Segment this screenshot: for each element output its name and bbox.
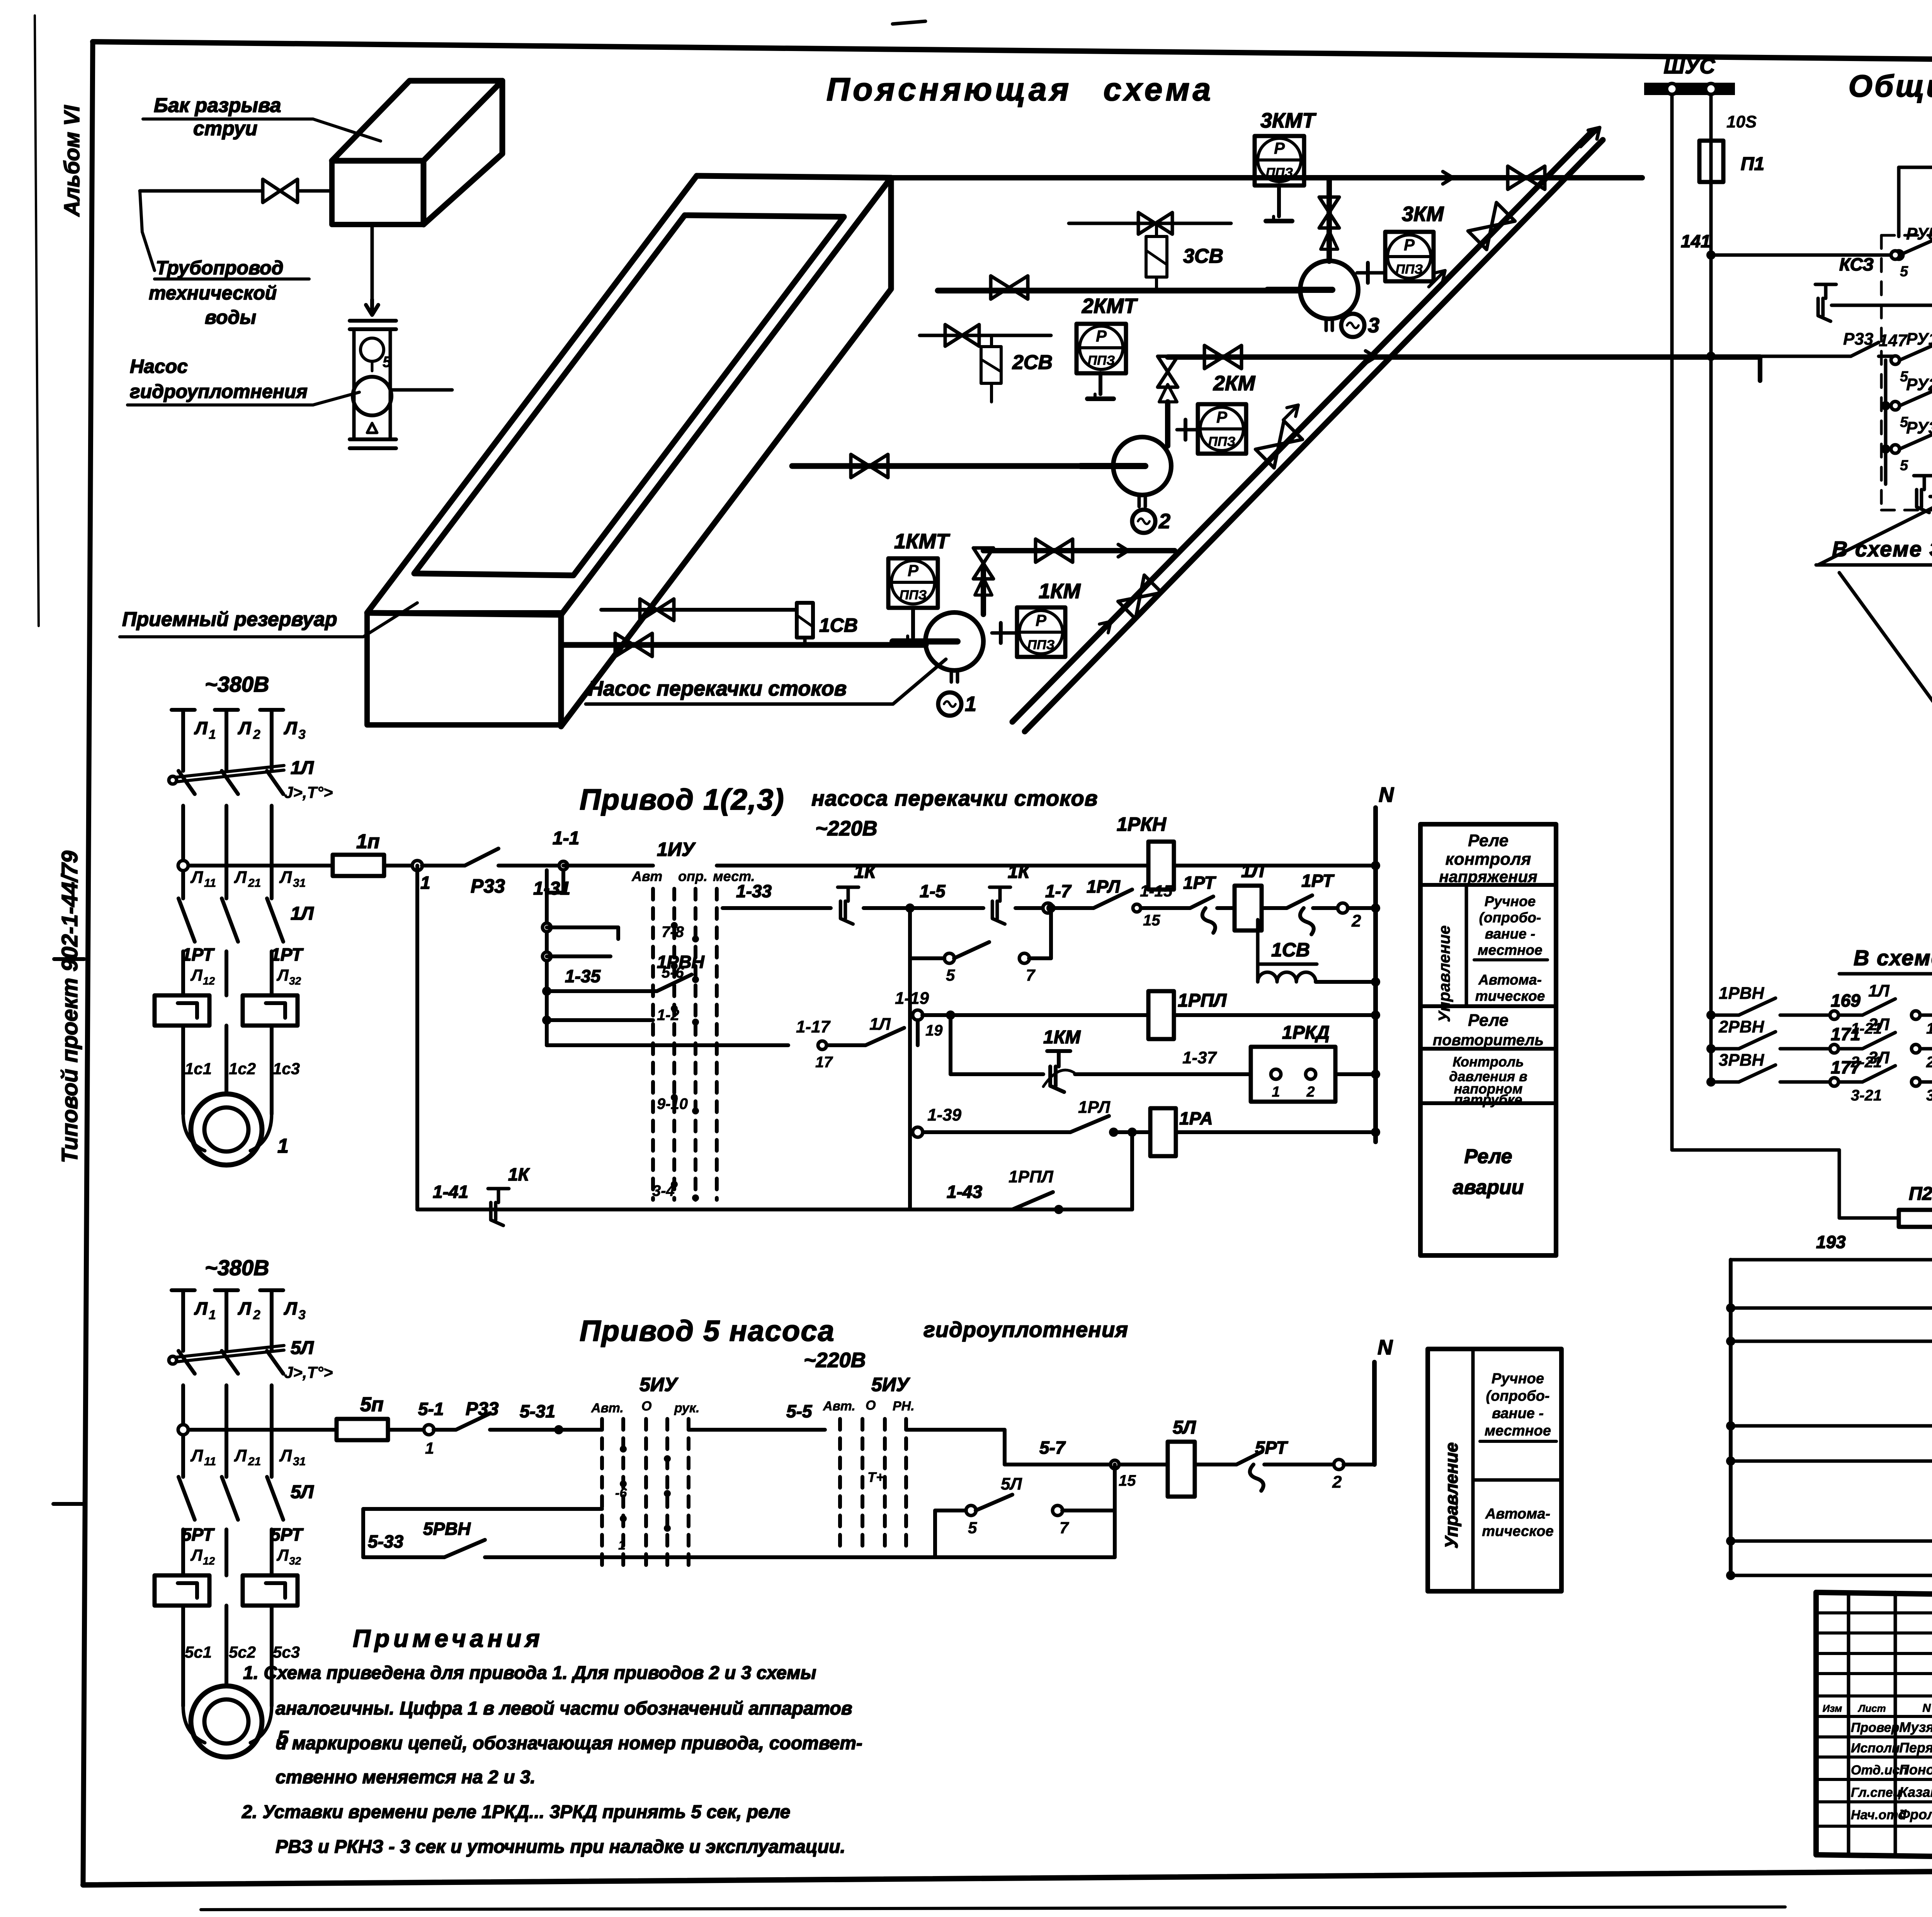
svg-text:Л: Л — [234, 868, 247, 887]
svg-text:местное: местное — [1485, 1423, 1551, 1439]
svg-text:1. Схема приведена для прив: 1. Схема приведена для привода 1. Для пр… — [243, 1663, 816, 1683]
svg-text:Ј>,Т°>: Ј>,Т°> — [284, 1363, 333, 1381]
svg-text:1Л: 1Л — [291, 903, 314, 924]
svg-text:РУ1: РУ1 — [1906, 330, 1932, 349]
svg-text:-6: -6 — [615, 1486, 627, 1500]
svg-text:12: 12 — [203, 1555, 215, 1567]
svg-text:1с3: 1с3 — [273, 1060, 300, 1078]
svg-text:N: N — [1379, 783, 1394, 806]
svg-text:Автома-: Автома- — [1485, 1506, 1550, 1522]
svg-text:~380В: ~380В — [205, 672, 269, 696]
svg-text:Р: Р — [1036, 611, 1047, 629]
svg-text:Фролов: Фролов — [1899, 1806, 1932, 1822]
svg-text:N докум.: N докум. — [1922, 1702, 1932, 1715]
svg-text:32: 32 — [289, 975, 301, 987]
svg-text:Авт.: Авт. — [823, 1399, 855, 1414]
svg-text:1РКД: 1РКД — [1282, 1022, 1330, 1043]
svg-text:Гл.спец: Гл.спец — [1851, 1785, 1901, 1800]
svg-text:~220В: ~220В — [815, 817, 878, 840]
svg-text:Пономарев: Пономарев — [1899, 1762, 1932, 1778]
svg-text:31: 31 — [293, 877, 306, 890]
svg-text:П2: П2 — [1909, 1184, 1932, 1204]
svg-text:Приемный резервуар: Приемный резервуар — [122, 608, 337, 631]
svg-text:1РА: 1РА — [1179, 1108, 1213, 1128]
svg-text:1-7: 1-7 — [1045, 881, 1072, 901]
svg-text:Типовой проект 902-1-44/79: Типовой проект 902-1-44/79 — [57, 851, 82, 1163]
svg-text:1: 1 — [1272, 1084, 1280, 1100]
svg-text:КСЗ: КСЗ — [1839, 254, 1874, 274]
svg-text:5РТ: 5РТ — [182, 1524, 215, 1544]
svg-text:2: 2 — [253, 1308, 260, 1322]
svg-text:19: 19 — [925, 1022, 943, 1039]
svg-text:1: 1 — [425, 1439, 434, 1457]
svg-text:В схеме ЭО лист 14: В схеме ЭО лист 14 — [1854, 946, 1932, 970]
svg-text:РУ5: РУ5 — [1906, 225, 1932, 243]
svg-text:1РВН: 1РВН — [1719, 984, 1765, 1003]
svg-text:патрубке: патрубке — [1454, 1092, 1522, 1107]
svg-text:Насос: Насос — [130, 356, 188, 377]
svg-text:1КМТ: 1КМТ — [894, 530, 950, 553]
svg-text:Авт.: Авт. — [591, 1401, 624, 1415]
svg-text:5РТ: 5РТ — [1255, 1437, 1289, 1458]
svg-text:193: 193 — [1816, 1232, 1846, 1252]
svg-text:О: О — [866, 1398, 876, 1413]
svg-text:РН.: РН. — [893, 1399, 915, 1414]
svg-text:1-19: 1-19 — [895, 989, 929, 1008]
svg-text:воды: воды — [205, 306, 256, 328]
svg-text:11: 11 — [204, 1455, 216, 1468]
svg-text:рук.: рук. — [674, 1401, 699, 1415]
svg-text:Провер: Провер — [1851, 1720, 1899, 1735]
svg-text:ственно меняется на 2 и 3.: ственно меняется на 2 и 3. — [276, 1767, 536, 1788]
svg-text:3РВН: 3РВН — [1719, 1051, 1765, 1070]
svg-text:1-43: 1-43 — [947, 1182, 982, 1202]
svg-text:2: 2 — [253, 727, 260, 742]
svg-text:5Л: 5Л — [1001, 1475, 1022, 1493]
svg-text:1-37: 1-37 — [1182, 1048, 1218, 1067]
svg-text:Л: Л — [279, 1446, 292, 1465]
svg-text:1РТ: 1РТ — [270, 944, 304, 964]
svg-text:Л: Л — [276, 1546, 289, 1564]
svg-text:аварии: аварии — [1453, 1176, 1524, 1199]
svg-text:1-41: 1-41 — [433, 1182, 468, 1202]
svg-text:5Л: 5Л — [291, 1482, 314, 1502]
svg-text:5: 5 — [946, 966, 955, 984]
svg-text:3: 3 — [1368, 314, 1379, 337]
svg-text:Насос перекачки стоков: Насос перекачки стоков — [588, 677, 847, 700]
svg-text:Л: Л — [190, 1546, 203, 1564]
svg-text:Исполн: Исполн — [1851, 1741, 1900, 1755]
svg-text:Л: Л — [194, 1298, 208, 1318]
svg-text:Трубопровод: Трубопровод — [156, 257, 284, 279]
svg-text:147: 147 — [1879, 331, 1908, 350]
svg-text:Казаков: Казаков — [1899, 1784, 1932, 1800]
svg-text:15: 15 — [1143, 912, 1160, 929]
svg-text:местное: местное — [1478, 942, 1542, 958]
svg-text:аналогичны. Цифра 1 в левой: аналогичны. Цифра 1 в левой части обозна… — [276, 1698, 852, 1719]
svg-text:Л: Л — [284, 718, 298, 738]
svg-text:2КМТ: 2КМТ — [1082, 294, 1138, 318]
svg-text:О: О — [641, 1399, 651, 1414]
svg-text:3КМ: 3КМ — [1402, 202, 1444, 226]
svg-text:Т+: Т+ — [867, 1469, 884, 1485]
svg-text:1: 1 — [420, 873, 430, 893]
svg-text:1РЛ: 1РЛ — [1087, 876, 1121, 896]
svg-text:ППЗ: ППЗ — [1208, 434, 1236, 449]
svg-text:опр.: опр. — [678, 868, 707, 884]
svg-text:2: 2 — [1351, 912, 1361, 930]
svg-text:17: 17 — [815, 1054, 833, 1071]
svg-text:Л: Л — [284, 1298, 298, 1318]
svg-text:1: 1 — [277, 1135, 289, 1157]
svg-text:3КМТ: 3КМТ — [1260, 109, 1316, 132]
svg-text:Альбом VI: Альбом VI — [60, 105, 84, 217]
svg-text:5с1: 5с1 — [185, 1643, 212, 1661]
svg-text:1РТ: 1РТ — [1301, 871, 1335, 891]
svg-text:5с3: 5с3 — [273, 1643, 300, 1661]
svg-text:177: 177 — [1831, 1057, 1861, 1077]
svg-text:Реле: Реле — [1464, 1145, 1512, 1168]
svg-text:П1: П1 — [1741, 154, 1764, 174]
svg-text:Поясняющая схема: Поясняющая схема — [827, 71, 1214, 107]
svg-text:Перян: Перян — [1899, 1740, 1932, 1755]
svg-text:Л: Л — [279, 868, 292, 887]
svg-text:Примечания: Примечания — [353, 1624, 544, 1652]
svg-text:2СВ: 2СВ — [1012, 351, 1053, 374]
svg-text:ППЗ: ППЗ — [1088, 353, 1115, 368]
svg-text:3Л: 3Л — [1868, 1048, 1889, 1067]
svg-text:повторитель: повторитель — [1433, 1032, 1544, 1049]
svg-text:гидроуплотнения: гидроуплотнения — [923, 1317, 1128, 1342]
svg-text:1Л: 1Л — [1868, 981, 1889, 1000]
svg-text:Л: Л — [190, 868, 203, 887]
svg-text:насоса перекачки стоков: насоса перекачки стоков — [811, 786, 1098, 810]
svg-text:РУ2: РУ2 — [1906, 375, 1932, 394]
svg-text:5-31: 5-31 — [520, 1401, 555, 1421]
svg-text:1РПЛ: 1РПЛ — [1009, 1167, 1053, 1186]
svg-text:3: 3 — [298, 727, 306, 742]
svg-text:1с2: 1с2 — [229, 1060, 256, 1078]
svg-text:ППЗ: ППЗ — [1266, 165, 1293, 180]
svg-text:1К: 1К — [508, 1164, 530, 1184]
svg-text:15: 15 — [1119, 1472, 1136, 1489]
svg-text:Л: Л — [194, 718, 208, 738]
svg-text:1-5: 1-5 — [920, 881, 946, 901]
svg-text:напряжения: напряжения — [1439, 867, 1537, 886]
svg-text:1РПЛ: 1РПЛ — [1178, 990, 1227, 1011]
svg-text:5-5: 5-5 — [786, 1401, 813, 1421]
svg-text:Р: Р — [1274, 139, 1285, 157]
svg-text:1СВ: 1СВ — [819, 614, 858, 636]
svg-text:21: 21 — [248, 1455, 261, 1468]
svg-text:Бак разрыва: Бак разрыва — [154, 94, 281, 117]
svg-text:3: 3 — [298, 1308, 306, 1322]
svg-text:1КМ: 1КМ — [1043, 1027, 1081, 1048]
svg-text:1: 1 — [209, 1308, 216, 1322]
svg-text:1: 1 — [209, 727, 216, 742]
svg-text:~380В: ~380В — [205, 1255, 269, 1280]
svg-text:тическое: тическое — [1475, 988, 1545, 1004]
svg-text:РВЗ и РКНЗ - 3 сек и уто: РВЗ и РКНЗ - 3 сек и уточнить при наладк… — [276, 1837, 845, 1857]
svg-text:5ИУ: 5ИУ — [639, 1374, 679, 1395]
svg-text:141: 141 — [1681, 231, 1711, 251]
svg-text:1РТ: 1РТ — [182, 944, 215, 964]
svg-text:Л: Л — [238, 718, 252, 738]
svg-text:7: 7 — [1026, 966, 1036, 984]
svg-text:Изм: Изм — [1823, 1703, 1842, 1714]
svg-text:5: 5 — [968, 1519, 977, 1537]
svg-text:ППЗ: ППЗ — [1027, 638, 1055, 652]
svg-text:N: N — [1378, 1336, 1393, 1359]
svg-text:Ј>,Т°>: Ј>,Т°> — [284, 783, 333, 801]
svg-text:~220В: ~220В — [804, 1349, 866, 1372]
svg-text:1КМ: 1КМ — [1039, 580, 1081, 603]
svg-text:1-1: 1-1 — [553, 828, 579, 849]
svg-text:Реле: Реле — [1468, 831, 1509, 850]
svg-text:3-23: 3-23 — [1926, 1087, 1932, 1104]
svg-text:5: 5 — [1900, 458, 1908, 474]
svg-text:1РЛ: 1РЛ — [1078, 1098, 1111, 1117]
svg-text:31: 31 — [293, 1455, 306, 1468]
svg-text:Л: Л — [190, 966, 203, 984]
svg-text:5п: 5п — [360, 1393, 384, 1416]
svg-text:Л: Л — [276, 966, 289, 984]
svg-text:2: 2 — [1332, 1473, 1342, 1492]
svg-text:ШУС: ШУС — [1663, 54, 1716, 78]
svg-text:1РВН: 1РВН — [657, 952, 704, 972]
svg-text:1с1: 1с1 — [185, 1060, 212, 1078]
svg-text:3СВ: 3СВ — [1183, 245, 1223, 267]
svg-text:5РВН: 5РВН — [423, 1519, 471, 1539]
svg-text:5Л: 5Л — [291, 1338, 314, 1358]
svg-text:1: 1 — [965, 692, 976, 716]
svg-text:12: 12 — [203, 975, 215, 987]
svg-text:вание -: вание - — [1492, 1405, 1544, 1422]
svg-text:1Л: 1Л — [869, 1015, 891, 1034]
svg-text:11: 11 — [204, 877, 216, 890]
svg-text:5РТ: 5РТ — [270, 1524, 304, 1544]
svg-text:2РВН: 2РВН — [1718, 1017, 1765, 1036]
svg-text:ППЗ: ППЗ — [900, 588, 927, 602]
svg-text:171: 171 — [1831, 1024, 1861, 1044]
svg-text:Л: Л — [190, 1446, 203, 1465]
svg-text:Авт: Авт — [631, 868, 662, 884]
svg-text:5Л: 5Л — [1173, 1417, 1196, 1438]
svg-text:Ручное: Ручное — [1485, 893, 1536, 909]
svg-text:2Л: 2Л — [1868, 1015, 1889, 1034]
svg-text:1Л: 1Л — [291, 758, 314, 778]
svg-text:Ручное: Ручное — [1492, 1371, 1544, 1387]
svg-text:Р: Р — [1404, 236, 1415, 254]
svg-text:Привод 1(2,3): Привод 1(2,3) — [580, 783, 785, 816]
svg-text:Л: Л — [234, 1446, 247, 1465]
svg-text:2КМ: 2КМ — [1213, 372, 1255, 395]
svg-text:Р: Р — [1096, 327, 1107, 345]
svg-text:5-33: 5-33 — [368, 1531, 403, 1551]
svg-text:169: 169 — [1831, 990, 1861, 1010]
svg-text:2. Уставки времени реле 1РК: 2. Уставки времени реле 1РКД... 3РКД при… — [241, 1802, 790, 1822]
svg-text:Общие цепи управления: Общие цепи управления — [1849, 69, 1932, 103]
svg-text:ППЗ: ППЗ — [1396, 262, 1423, 277]
svg-text:Музяк: Музяк — [1899, 1719, 1932, 1735]
svg-text:1п: 1п — [356, 830, 380, 853]
svg-text:2-23: 2-23 — [1926, 1054, 1932, 1071]
svg-text:5с2: 5с2 — [229, 1643, 256, 1661]
svg-text:вание -: вание - — [1485, 926, 1536, 942]
svg-text:(опробо-: (опробо- — [1479, 910, 1541, 925]
svg-text:2: 2 — [1306, 1084, 1315, 1100]
svg-text:10S: 10S — [1726, 112, 1757, 131]
svg-text:гидроуплотнения: гидроуплотнения — [130, 381, 308, 402]
svg-text:21: 21 — [248, 877, 261, 890]
svg-text:5-7: 5-7 — [1039, 1437, 1066, 1458]
svg-text:1РКН: 1РКН — [1117, 813, 1167, 835]
svg-text:Р: Р — [1216, 408, 1228, 426]
svg-text:Р: Р — [908, 561, 919, 580]
svg-text:1-33: 1-33 — [736, 881, 772, 901]
svg-text:2: 2 — [1158, 510, 1170, 533]
svg-text:струи: струи — [193, 117, 257, 140]
svg-text:1-39: 1-39 — [927, 1106, 962, 1124]
svg-text:тическое: тическое — [1482, 1523, 1554, 1539]
svg-text:Управление: Управление — [1435, 925, 1453, 1022]
svg-text:1К: 1К — [854, 862, 877, 882]
svg-text:и маркировки цепей, обознач: и маркировки цепей, обозначающая номер п… — [276, 1733, 862, 1754]
svg-text:1: 1 — [618, 1538, 626, 1553]
svg-text:Управление: Управление — [1441, 1442, 1461, 1549]
svg-text:1РТ: 1РТ — [1183, 873, 1217, 893]
svg-text:5: 5 — [1900, 264, 1908, 280]
svg-text:Р33: Р33 — [471, 875, 505, 897]
svg-text:1-35: 1-35 — [565, 966, 601, 986]
svg-text:1ИУ: 1ИУ — [657, 839, 696, 860]
svg-text:Привод 5 насоса: Привод 5 насоса — [580, 1315, 835, 1347]
svg-text:7: 7 — [1060, 1519, 1069, 1537]
svg-text:РУ3: РУ3 — [1906, 418, 1932, 437]
svg-text:контроля: контроля — [1446, 850, 1531, 869]
svg-text:Нач.отд: Нач.отд — [1851, 1808, 1906, 1822]
svg-text:Л: Л — [238, 1298, 252, 1318]
svg-text:технической: технической — [149, 282, 277, 304]
svg-text:(опробо-: (опробо- — [1486, 1388, 1550, 1404]
svg-text:Лист: Лист — [1857, 1703, 1886, 1714]
svg-text:5ИУ: 5ИУ — [871, 1374, 911, 1395]
svg-text:5: 5 — [383, 354, 391, 371]
svg-text:1-17: 1-17 — [796, 1017, 831, 1036]
svg-text:1-23: 1-23 — [1926, 1020, 1932, 1037]
svg-text:Контроль: Контроль — [1452, 1054, 1524, 1070]
svg-text:32: 32 — [289, 1555, 301, 1567]
svg-text:5-1: 5-1 — [418, 1399, 444, 1419]
svg-text:Автома-: Автома- — [1478, 972, 1542, 988]
svg-text:3-21: 3-21 — [1851, 1087, 1882, 1104]
svg-text:1СВ: 1СВ — [1271, 939, 1310, 961]
svg-text:Реле: Реле — [1468, 1011, 1509, 1030]
